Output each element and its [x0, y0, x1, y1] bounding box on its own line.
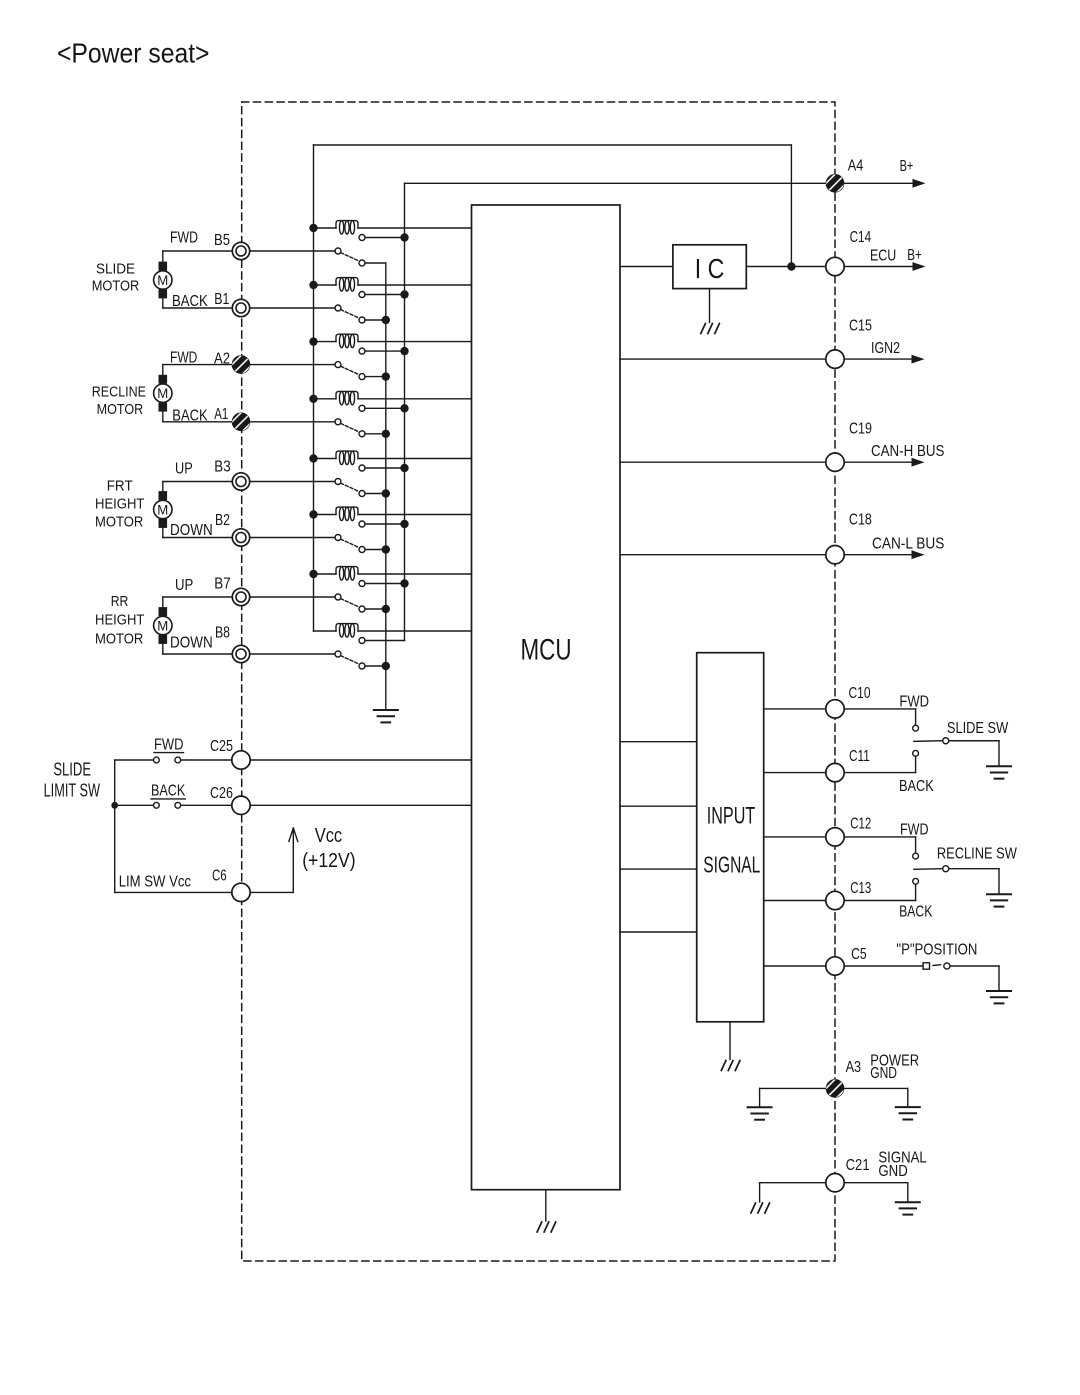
svg-text:ECU: ECU	[870, 247, 896, 264]
wire RECLINE MOTOR - to pin A1	[162, 412, 164, 422]
wire MCU to pin C18	[620, 554, 826, 556]
svg-text:C15: C15	[849, 318, 872, 335]
svg-text:B7: B7	[214, 575, 230, 592]
relay K2 (B1 BACK) common contact	[335, 305, 341, 311]
wire MCU to pin C19	[620, 461, 826, 463]
arrow ECU B+ output	[844, 266, 914, 268]
svg-text:BACK: BACK	[172, 293, 208, 310]
pin C18 (CAN-L)	[826, 546, 844, 564]
junction ECU-B+ node	[787, 262, 795, 270]
svg-text:MOTOR: MOTOR	[97, 401, 144, 418]
svg-text:DOWN: DOWN	[170, 522, 213, 539]
svg-text:FWD: FWD	[900, 822, 929, 839]
pin C15 (IGN2)	[826, 350, 844, 368]
svg-text:A1: A1	[214, 406, 228, 423]
svg-text:A4: A4	[848, 158, 864, 175]
junction armature bus K6 (B2 DOWN)	[382, 545, 390, 553]
wire MCU to pin C15	[620, 358, 826, 360]
wire RECLINE MOTOR + to pin A2	[162, 365, 164, 375]
wire pin B5 to relay switch	[250, 250, 335, 252]
wire contact K8 (B8 DOWN) to armature bus	[365, 665, 386, 667]
wire contact K3 (A2 FWD) to armature bus	[365, 376, 386, 378]
relay K8 (B8 DOWN) common contact	[335, 651, 341, 657]
junction bus1 / coil K3 (A2 FWD)	[309, 337, 317, 345]
wire coil K6 (B2 DOWN) to MCU	[358, 514, 472, 516]
wire B+ contact bus (bus2)	[404, 183, 406, 640]
wire limit-switch common vertical	[114, 760, 116, 892]
svg-text:C11: C11	[849, 748, 870, 765]
svg-text:C13: C13	[850, 880, 871, 897]
svg-text:C21: C21	[846, 1157, 870, 1174]
svg-text:RR: RR	[111, 593, 129, 610]
relay K3 (A2 FWD) armature arm	[341, 366, 360, 375]
junction bus1 / coil K6 (B2 DOWN)	[309, 510, 317, 518]
motor FRT HEIGHT MOTOR	[154, 500, 172, 518]
pin B5	[232, 242, 249, 259]
wire pin B2 to relay switch	[250, 537, 335, 539]
pin B8	[232, 645, 249, 662]
svg-text:HEIGHT: HEIGHT	[95, 611, 144, 628]
relay K1 (B5 FWD) fixed contact to B+ bus	[359, 235, 365, 241]
junction bus2 / contact K4 (A1 BACK)	[400, 404, 408, 412]
junction armature bus K4 (A1 BACK)	[382, 430, 390, 438]
wire coil K5 (B3 UP) to MCU	[358, 458, 472, 460]
relay K7 (B7 UP) thrown contact	[359, 606, 365, 612]
wire IC ground stem	[709, 289, 711, 323]
wire relay coil bus (bus1)	[313, 145, 315, 631]
ground for RECLINE SW	[987, 894, 1011, 906]
svg-text:M: M	[157, 502, 168, 517]
pin B2	[232, 529, 249, 546]
svg-text:A3: A3	[846, 1059, 862, 1076]
junction bus2 / contact K3 (A2 FWD)	[400, 347, 408, 355]
junction armature bus K5 (B3 UP)	[382, 489, 390, 497]
wire pin C21 to right ground	[844, 1182, 908, 1184]
wire contact K2 (B1 BACK) to armature bus	[365, 319, 386, 321]
wire FRT HEIGHT MOTOR + to pin B3	[162, 482, 164, 492]
pin A1	[228, 409, 255, 436]
svg-text:MOTOR: MOTOR	[95, 514, 143, 531]
relay K5 (B3 UP) thrown contact	[359, 491, 365, 497]
wire SLIDE MOTOR + to pin B5	[162, 251, 164, 262]
svg-text:B3: B3	[214, 459, 230, 476]
svg-text:BACK: BACK	[151, 783, 186, 800]
wire pin C26 to MCU	[250, 804, 471, 806]
arrow IGN2	[844, 358, 913, 360]
ground for "P" POSITION switch	[987, 991, 1011, 1003]
switch "P" POSITION	[844, 965, 923, 967]
svg-text:FWD: FWD	[154, 737, 184, 754]
svg-text:C14: C14	[850, 229, 872, 246]
relay K5 (B3 UP) fixed contact to B+ bus	[359, 465, 365, 471]
pin C5	[826, 957, 844, 975]
svg-text:UP: UP	[175, 577, 193, 594]
relay K2 (B1 BACK) thrown contact	[359, 317, 365, 323]
wire armature-to-ground bus	[385, 263, 387, 710]
arrow B+ output	[844, 182, 914, 184]
junction armature bus K8 (B8 DOWN)	[382, 662, 390, 670]
Vcc (+12V) supply arrow	[292, 829, 294, 892]
relay K6 (B2 DOWN) fixed contact to B+ bus	[359, 521, 365, 527]
relay K5 (B3 UP) common contact	[335, 479, 341, 485]
ground left of C21 (chassis)	[751, 1203, 770, 1213]
wire coil K1 (B5 FWD) to MCU	[358, 227, 472, 229]
relay K4 (A1 BACK) common contact	[335, 419, 341, 425]
svg-text:C12: C12	[850, 816, 871, 833]
svg-text:DOWN: DOWN	[170, 635, 213, 652]
svg-text:BACK: BACK	[172, 408, 208, 425]
svg-text:BACK: BACK	[899, 904, 933, 921]
svg-text:B2: B2	[215, 512, 230, 529]
pin C11	[826, 763, 844, 781]
pin C25	[232, 751, 250, 769]
wire INPUT SIGNAL to pin C12	[764, 836, 826, 838]
svg-text:B+: B+	[900, 158, 914, 175]
relay K8 (B8 DOWN) thrown contact	[359, 663, 365, 669]
svg-text:(+12V): (+12V)	[302, 849, 355, 872]
svg-text:B5: B5	[214, 232, 230, 249]
wire coil K2 (B1 BACK) to MCU	[358, 284, 472, 286]
relay K6 (B2 DOWN) thrown contact	[359, 547, 365, 553]
svg-text:CAN-L BUS: CAN-L BUS	[872, 536, 944, 553]
pin B3	[232, 473, 249, 490]
svg-text:MOTOR: MOTOR	[92, 278, 140, 295]
pin C10	[826, 700, 844, 718]
svg-text:MOTOR: MOTOR	[95, 630, 143, 647]
pin B7	[232, 588, 249, 605]
svg-text:C18: C18	[849, 511, 872, 528]
ground for INPUT SIGNAL	[721, 1061, 740, 1071]
relay K7 (B7 UP) common contact	[335, 594, 341, 600]
svg-text:B1: B1	[214, 291, 229, 308]
pin C13	[826, 891, 844, 909]
relay K2 (B1 BACK) fixed contact to B+ bus	[359, 292, 365, 298]
wire contact K6 (B2 DOWN) to armature bus	[365, 549, 386, 551]
svg-text:C5: C5	[851, 946, 867, 963]
svg-text:CAN-H BUS: CAN-H BUS	[871, 443, 944, 460]
svg-text:HEIGHT: HEIGHT	[95, 495, 144, 512]
wire contact K4 (A1 BACK) to armature bus	[365, 433, 386, 435]
wire coil K4 (A1 BACK) to MCU	[358, 398, 472, 400]
svg-text:SLIDE: SLIDE	[96, 260, 135, 277]
wire bus1 top to ECU-B+ node	[314, 144, 792, 146]
motor RR HEIGHT MOTOR	[154, 616, 172, 634]
motor SLIDE MOTOR	[154, 271, 172, 289]
wire pin A3 to right ground	[844, 1087, 908, 1089]
relay K4 (A1 BACK) armature arm	[341, 423, 360, 432]
wire FWD limit contact to pin C25	[181, 759, 232, 761]
junction bus1 / coil K7 (B7 UP)	[309, 570, 317, 578]
junction armature bus K2 (B1 BACK)	[382, 316, 390, 324]
junction bus1 / coil K4 (A1 BACK)	[309, 395, 317, 403]
junction bus1 / coil K1 (B5 FWD)	[309, 224, 317, 232]
pin A2	[228, 352, 255, 379]
motor RECLINE MOTOR	[154, 384, 172, 402]
svg-text:IGN2: IGN2	[871, 340, 900, 357]
wire INPUT SIGNAL to pin C5	[764, 965, 826, 967]
svg-text:C26: C26	[210, 785, 233, 802]
wire MCU to INPUT SIGNAL 2	[620, 805, 697, 807]
svg-text:FWD: FWD	[170, 350, 197, 367]
svg-text:SLIDE SW: SLIDE SW	[947, 720, 1009, 737]
limit switch BACK	[115, 804, 154, 806]
svg-text:INPUT: INPUT	[707, 802, 756, 829]
pin B1	[232, 299, 249, 316]
relay K3 (A2 FWD) thrown contact	[359, 374, 365, 380]
ground left of A3	[748, 1107, 772, 1119]
wire INPUT SIGNAL ground stem	[729, 1022, 731, 1060]
wire MCU to INPUT SIGNAL 1	[620, 741, 697, 743]
svg-text:M: M	[157, 618, 168, 633]
svg-text:LIM SW Vcc: LIM SW Vcc	[119, 874, 191, 891]
wire MCU ground stem	[545, 1190, 547, 1221]
svg-text:RECLINE SW: RECLINE SW	[937, 846, 1017, 863]
junction armature bus K7 (B7 UP)	[382, 605, 390, 613]
wire pin B3 to relay switch	[250, 481, 335, 483]
relay K8 (B8 DOWN) armature arm	[341, 656, 360, 665]
wire MCU row C14 handled above; pin C14 (ECU B+)	[826, 257, 844, 275]
pin C19 (CAN-H)	[826, 453, 844, 471]
wire pin B1 to relay switch	[250, 307, 335, 309]
relay K8 (B8 DOWN) coil	[314, 630, 337, 632]
svg-text:MCU: MCU	[521, 634, 572, 667]
junction bus2 / contact K1 (B5 FWD)	[400, 233, 408, 241]
relay K1 (B5 FWD) thrown contact	[359, 260, 365, 266]
wire BACK limit contact to pin C26	[181, 804, 232, 806]
wire coil K7 (B7 UP) to MCU	[358, 573, 472, 575]
svg-text:B8: B8	[215, 624, 230, 641]
wire RECLINE SW to ground	[949, 868, 999, 870]
ground for MCU	[537, 1222, 556, 1232]
junction bus2 / contact K2 (B1 BACK)	[400, 290, 408, 298]
arrow CAN-L BUS	[844, 554, 913, 556]
junction armature bus K3 (A2 FWD)	[382, 372, 390, 380]
wire pin C6 to Vcc arrow	[250, 891, 293, 893]
svg-text:RECLINE: RECLINE	[92, 384, 146, 401]
junction bus1 / coil K5 (B3 UP)	[309, 454, 317, 462]
ground for armature bus	[374, 710, 398, 722]
wire pin B7 to relay switch	[250, 596, 335, 598]
svg-text:M: M	[157, 273, 168, 288]
junction bus1 / coil K2 (B1 BACK)	[309, 281, 317, 289]
ground for IC	[701, 324, 720, 334]
wire pin B8 to relay switch	[250, 653, 335, 655]
wire contact K1 (B5 FWD) to armature bus	[365, 262, 386, 264]
wire MCU to IC	[620, 266, 673, 268]
pin C6	[232, 883, 250, 901]
junction bus2 / contact K5 (B3 UP)	[400, 464, 408, 472]
relay K5 (B3 UP) armature arm	[341, 483, 360, 492]
svg-text:C10: C10	[849, 685, 871, 702]
svg-text:LIMIT SW: LIMIT SW	[44, 780, 101, 801]
relay K8 (B8 DOWN) fixed contact to B+ bus	[359, 638, 365, 644]
svg-text:C6: C6	[212, 867, 227, 884]
svg-text:SIGNAL: SIGNAL	[703, 852, 760, 878]
INPUT SIGNAL block	[697, 653, 764, 1022]
svg-text:Vcc: Vcc	[315, 824, 343, 847]
wire IC output to pin C14	[746, 266, 826, 268]
wire FRT HEIGHT MOTOR - to pin B2	[162, 528, 164, 538]
svg-text:A2: A2	[214, 350, 230, 367]
ground for SLIDE SW	[987, 766, 1011, 778]
junction bus2 / contact K6 (B2 DOWN)	[400, 520, 408, 528]
wire vertical drop to ECU-B+ node	[790, 145, 792, 267]
IC block U2	[673, 245, 746, 289]
wire contact K5 (B3 UP) to armature bus	[365, 493, 386, 495]
wire MCU to INPUT SIGNAL 3	[620, 868, 697, 870]
ground right of A3	[896, 1107, 920, 1119]
limit switch FWD	[115, 759, 154, 761]
wire pin A3 to left ground	[760, 1087, 826, 1089]
svg-text:I C: I C	[695, 253, 725, 284]
svg-text:B+: B+	[907, 247, 922, 264]
relay K7 (B7 UP) armature arm	[341, 599, 360, 608]
ECU dashed boundary box	[242, 102, 835, 1261]
relay K2 (B1 BACK) armature arm	[341, 310, 360, 319]
wire limit-switch common to pin C6	[115, 891, 232, 893]
wire bus2 top to pin A4	[405, 182, 826, 184]
relay K6 (B2 DOWN) common contact	[335, 535, 341, 541]
ground right of C21	[896, 1202, 920, 1214]
svg-text:FWD: FWD	[899, 693, 929, 710]
svg-text:M: M	[157, 386, 168, 401]
relay K1 (B5 FWD) armature arm	[341, 253, 360, 262]
wire pin C25 to MCU	[250, 759, 471, 761]
pin C12	[826, 828, 844, 846]
switch RECLINE SW	[844, 836, 915, 838]
svg-text:<Power seat>: <Power seat>	[57, 38, 210, 69]
relay K3 (A2 FWD) fixed contact to B+ bus	[359, 348, 365, 354]
wire MCU to INPUT SIGNAL 4	[620, 931, 697, 933]
svg-text:FWD: FWD	[170, 230, 198, 247]
relay K3 (A2 FWD) common contact	[335, 362, 341, 368]
wire contact K7 (B7 UP) to armature bus	[365, 608, 386, 610]
pin A4 (B+)	[822, 170, 849, 197]
svg-text:"P"POSITION: "P"POSITION	[896, 941, 977, 958]
wire SLIDE SW to ground	[949, 740, 999, 742]
wire RR HEIGHT MOTOR - to pin B8	[162, 644, 164, 654]
relay K6 (B2 DOWN) armature arm	[341, 539, 360, 548]
switch SLIDE SW	[844, 708, 915, 710]
svg-text:FRT: FRT	[107, 478, 133, 495]
svg-text:C19: C19	[849, 421, 872, 438]
wire pin A1 to relay switch	[250, 421, 335, 423]
wire INPUT SIGNAL to pin C11	[764, 772, 826, 774]
svg-text:GND: GND	[870, 1065, 897, 1082]
svg-text:BACK: BACK	[899, 778, 934, 795]
wire SLIDE MOTOR - to pin B1	[162, 298, 164, 308]
pin C26	[232, 796, 250, 814]
relay K4 (A1 BACK) fixed contact to B+ bus	[359, 405, 365, 411]
junction bus2 / contact K7 (B7 UP)	[400, 579, 408, 587]
junction limit-switch common / BACK row	[111, 802, 118, 809]
wire "P" POSITION switch to ground	[950, 965, 999, 967]
arrow CAN-H BUS	[844, 461, 913, 463]
relay K1 (B5 FWD) common contact	[335, 248, 341, 254]
svg-text:C25: C25	[210, 738, 233, 755]
svg-text:GND: GND	[878, 1163, 907, 1180]
wire INPUT SIGNAL to pin C10	[764, 708, 826, 710]
relay K7 (B7 UP) fixed contact to B+ bus	[359, 581, 365, 587]
wire INPUT SIGNAL to pin C13	[764, 900, 826, 902]
wire coil K3 (A2 FWD) to MCU	[358, 341, 472, 343]
svg-text:SLIDE: SLIDE	[53, 758, 91, 779]
wire coil K8 (B8 DOWN) to MCU	[358, 630, 472, 632]
wire pin A2 to relay switch	[250, 364, 335, 366]
svg-text:UP: UP	[175, 460, 193, 477]
MCU block U1	[472, 205, 621, 1190]
relay K4 (A1 BACK) thrown contact	[359, 431, 365, 437]
wire pin C21 to left ground	[760, 1182, 826, 1184]
wire RR HEIGHT MOTOR + to pin B7	[162, 597, 164, 607]
